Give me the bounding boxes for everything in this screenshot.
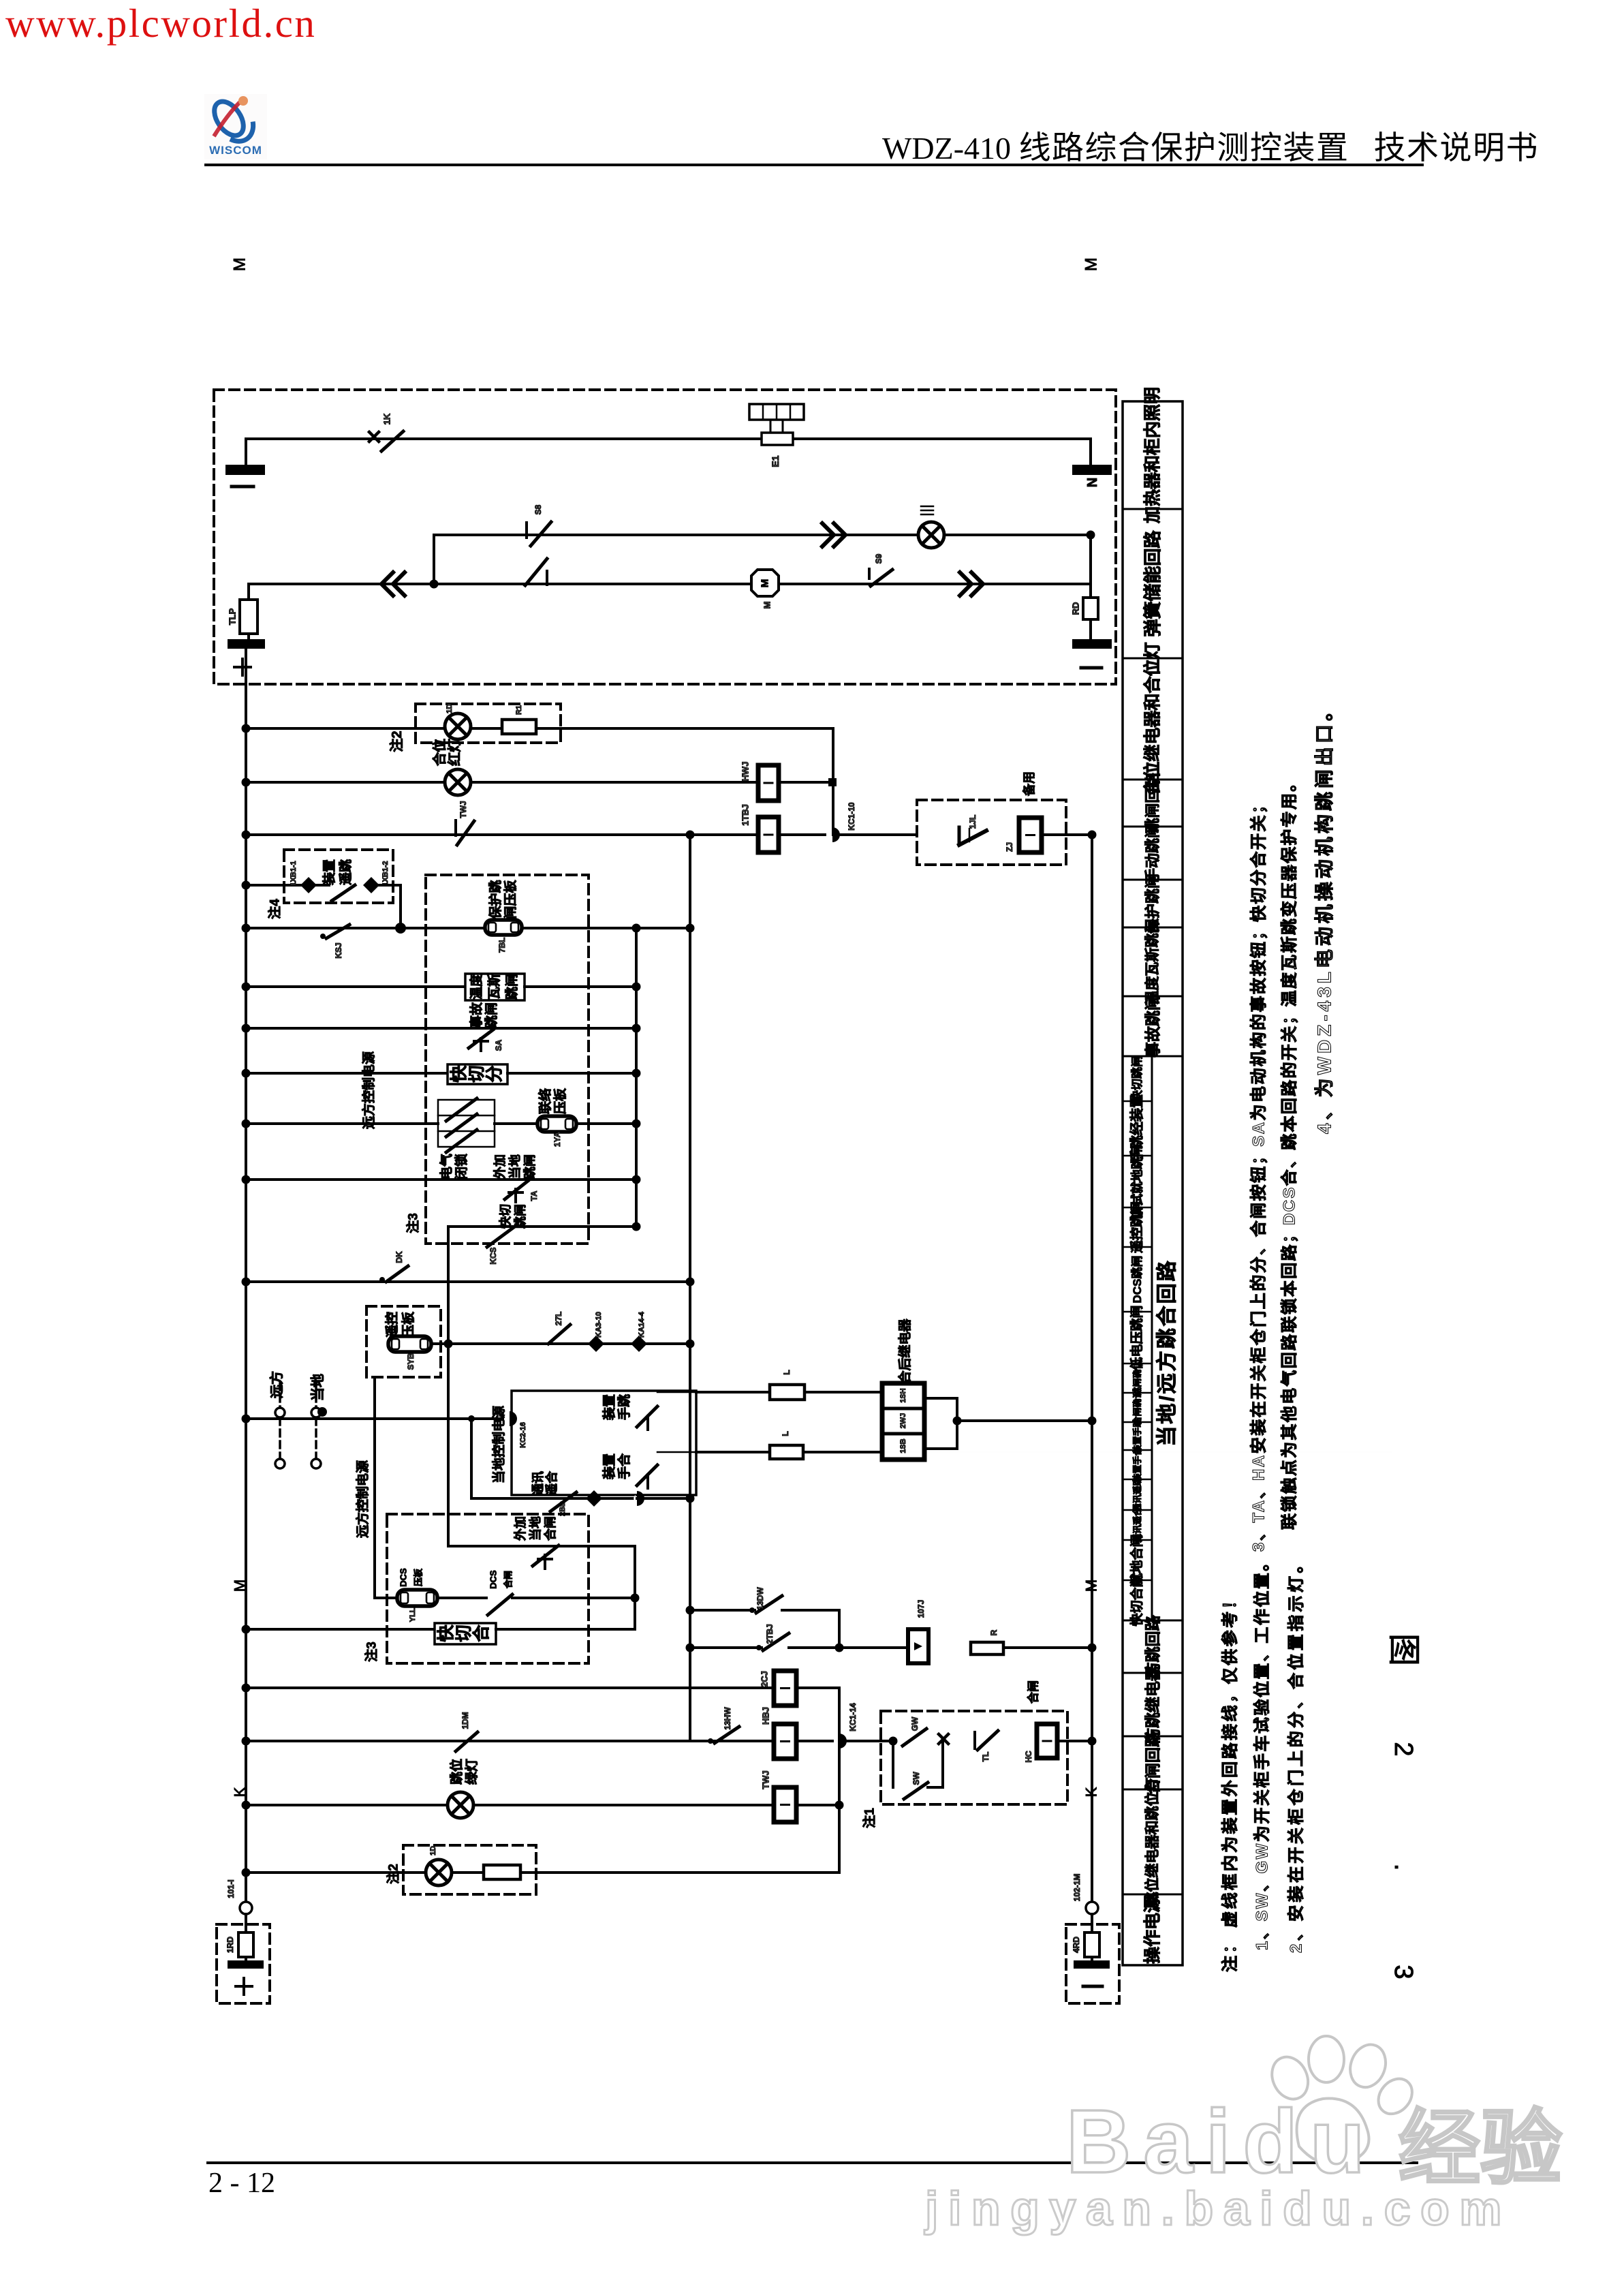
svg-text:TL: TL <box>981 1752 990 1762</box>
svg-text:KSJ: KSJ <box>334 942 343 958</box>
svg-text:KA14-4: KA14-4 <box>638 1311 646 1338</box>
svg-text:YLL: YLL <box>409 1607 417 1622</box>
svg-text:绿灯: 绿灯 <box>464 1759 480 1785</box>
svg-text:手跳: 手跳 <box>616 1394 632 1420</box>
svg-text:GW: GW <box>910 1716 920 1731</box>
svg-text:红灯: 红灯 <box>446 739 463 766</box>
svg-text:快: 快 <box>437 1624 456 1642</box>
svg-text:R: R <box>989 1629 999 1635</box>
svg-text:13HW: 13HW <box>723 1707 732 1730</box>
svg-text:1TBJ: 1TBJ <box>740 804 751 826</box>
svg-text:跳位: 跳位 <box>449 1759 465 1785</box>
svg-text:装置: 装置 <box>602 1394 617 1421</box>
svg-text:HC: HC <box>1024 1751 1033 1763</box>
svg-text:DCS跳闸: DCS跳闸 <box>1130 1256 1144 1304</box>
svg-text:2、安装在开关柜仓门上的分、合位置指示灯。: 2、安装在开关柜仓门上的分、合位置指示灯。 <box>1287 1554 1306 1953</box>
svg-text:压板: 压板 <box>552 1088 568 1114</box>
svg-text:合闸: 合闸 <box>503 1571 514 1588</box>
svg-text:跳闸: 跳闸 <box>522 1154 537 1179</box>
svg-text:远方控制电源: 远方控制电源 <box>361 1051 377 1129</box>
svg-text:KC1-10: KC1-10 <box>847 802 856 831</box>
svg-text:联锁触点为其他电气回路联锁本回路；DCS合、跳本回路的开关；: 联锁触点为其他电气回路联锁本回路；DCS合、跳本回路的开关；温度瓦斯跳变压器保护… <box>1280 773 1299 1530</box>
svg-text:1、SW、GW为开关柜手车试验位置、工作位置。: 1、SW、GW为开关柜手车试验位置、工作位置。 <box>1253 1553 1272 1950</box>
svg-text:合: 合 <box>471 1624 491 1642</box>
svg-text:注3: 注3 <box>405 1213 421 1233</box>
svg-text:S8: S8 <box>533 504 543 514</box>
svg-text:当地: 当地 <box>528 1516 542 1541</box>
svg-text:压板: 压板 <box>413 1568 424 1586</box>
svg-text:1K: 1K <box>382 413 392 425</box>
svg-text:2: 2 <box>1389 1742 1418 1756</box>
svg-text:当地控制电源: 当地控制电源 <box>491 1406 507 1483</box>
svg-text:13DW: 13DW <box>755 1587 765 1610</box>
svg-text:3、TA、HA安装在开关柜仓门上的分、合闸按钮；SA为电动机: 3、TA、HA安装在开关柜仓门上的分、合闸按钮；SA为电动机构的事故按钮；快切分… <box>1249 795 1268 1552</box>
svg-text:1DM: 1DM <box>460 1712 470 1729</box>
svg-text:注4: 注4 <box>267 899 283 919</box>
svg-text:外加: 外加 <box>493 1154 507 1179</box>
svg-text:加热器和柜内照明: 加热器和柜内照明 <box>1143 387 1162 524</box>
svg-text:1XB1-2: 1XB1-2 <box>381 861 390 886</box>
svg-text:K: K <box>232 1787 249 1797</box>
svg-text:TWJ: TWJ <box>458 801 468 818</box>
svg-text:联络: 联络 <box>537 1088 553 1114</box>
svg-text:7BL: 7BL <box>497 938 507 953</box>
svg-text:装置: 装置 <box>602 1453 617 1480</box>
svg-text:E1: E1 <box>770 455 781 467</box>
svg-text:注3: 注3 <box>364 1642 379 1662</box>
svg-text:M: M <box>762 602 772 609</box>
svg-text:遥控: 遥控 <box>384 1312 400 1338</box>
svg-text:跳闸: 跳闸 <box>513 1204 527 1229</box>
svg-text:合后继电器: 合后继电器 <box>897 1319 913 1384</box>
svg-text:DCS: DCS <box>399 1568 409 1587</box>
svg-text:M: M <box>1082 258 1101 271</box>
svg-text:合闸: 合闸 <box>543 1516 557 1541</box>
svg-text:M: M <box>1083 1580 1100 1592</box>
svg-text:快: 快 <box>450 1065 469 1083</box>
svg-text:2CJ: 2CJ <box>760 1671 770 1687</box>
svg-text:N: N <box>1085 478 1100 487</box>
svg-text:2WJ: 2WJ <box>899 1413 907 1429</box>
svg-text:Baidu: Baidu <box>1066 2091 1377 2191</box>
svg-text:107J: 107J <box>916 1600 926 1618</box>
svg-text:遥控跳闸: 遥控跳闸 <box>1129 1201 1144 1253</box>
svg-text:M: M <box>231 258 249 271</box>
svg-text:KA3-10: KA3-10 <box>595 1312 603 1338</box>
svg-text:外加: 外加 <box>513 1516 527 1541</box>
svg-text:1D: 1D <box>429 1846 437 1855</box>
svg-text:图: 图 <box>1386 1633 1422 1666</box>
svg-text:跳闸: 跳闸 <box>484 1002 499 1028</box>
svg-text:2TBJ: 2TBJ <box>765 1624 775 1644</box>
svg-text:远方: 远方 <box>268 1371 285 1398</box>
svg-text:TA: TA <box>529 1190 539 1201</box>
svg-text:装置: 装置 <box>322 859 337 886</box>
svg-text:1D: 1D <box>446 704 454 713</box>
svg-text:弹簧储能回路: 弹簧储能回路 <box>1142 530 1163 637</box>
svg-text:SW: SW <box>911 1772 921 1785</box>
svg-text:SA: SA <box>494 1039 503 1051</box>
svg-text:RD: RD <box>1071 602 1081 615</box>
svg-text:TLP: TLP <box>228 608 238 625</box>
svg-text:1XB1-1: 1XB1-1 <box>290 861 298 886</box>
svg-text:M: M <box>232 1580 249 1592</box>
svg-text:4RD: 4RD <box>1072 1937 1081 1953</box>
svg-text:1JL: 1JL <box>968 815 978 829</box>
svg-text:温度: 温度 <box>469 973 484 1000</box>
svg-text:注2: 注2 <box>388 730 405 752</box>
svg-text:电气: 电气 <box>439 1154 454 1180</box>
svg-text:TWJ: TWJ <box>761 1770 771 1789</box>
svg-text:4、为WDZ-43L电动机操动机构跳闸出口。: 4、为WDZ-43L电动机操动机构跳闸出口。 <box>1314 698 1335 1134</box>
svg-text:遥合: 遥合 <box>544 1470 559 1496</box>
svg-text:合位: 合位 <box>431 739 448 766</box>
svg-text:闭锁: 闭锁 <box>454 1154 469 1180</box>
svg-text:切: 切 <box>467 1065 486 1082</box>
svg-text:1SB: 1SB <box>899 1438 907 1453</box>
svg-text:当地: 当地 <box>507 1154 522 1179</box>
svg-text:远方控制电源: 远方控制电源 <box>355 1460 371 1538</box>
svg-text:DCS: DCS <box>488 1570 499 1589</box>
svg-text:HBJ: HBJ <box>761 1707 771 1725</box>
svg-text:事故: 事故 <box>469 1002 484 1028</box>
svg-text:102-1M: 102-1M <box>1072 1874 1082 1902</box>
svg-text:保护跳: 保护跳 <box>488 880 503 919</box>
svg-text:闸压板: 闸压板 <box>503 880 518 919</box>
svg-text:操作电源: 操作电源 <box>1143 1896 1162 1964</box>
svg-text:KC1-14: KC1-14 <box>848 1703 858 1731</box>
svg-text:压板: 压板 <box>401 1311 416 1338</box>
svg-text:27L: 27L <box>554 1312 563 1326</box>
svg-text:KCS: KCS <box>488 1247 498 1264</box>
svg-text:jingyan.baidu.com: jingyan.baidu.com <box>924 2182 1512 2235</box>
svg-text:跳闸: 跳闸 <box>504 974 520 1000</box>
svg-text:1YA: 1YA <box>552 1132 562 1147</box>
svg-text:S9: S9 <box>874 553 884 564</box>
svg-text:101-I: 101-I <box>226 1879 236 1898</box>
svg-text:当地: 当地 <box>310 1374 326 1401</box>
svg-text:温度瓦斯跳闸: 温度瓦斯跳闸 <box>1144 919 1161 1005</box>
svg-text:L: L <box>782 1370 792 1374</box>
svg-text:快切合闸: 快切合闸 <box>1129 1574 1144 1626</box>
svg-text:1SH: 1SH <box>899 1388 907 1402</box>
svg-text:K: K <box>1083 1787 1100 1797</box>
svg-text:遥跳: 遥跳 <box>338 859 354 885</box>
svg-text:M: M <box>760 579 771 588</box>
svg-text:通讯遥跳: 通讯遥跳 <box>1132 1477 1142 1512</box>
svg-text:手合: 手合 <box>616 1453 632 1479</box>
svg-text:3: 3 <box>1389 1965 1418 1979</box>
svg-text:当地/远方跳合回路: 当地/远方跳合回路 <box>1155 1259 1178 1446</box>
svg-text:L: L <box>781 1431 790 1436</box>
svg-text:注1: 注1 <box>862 1808 877 1828</box>
svg-text:跳位继电器和跳位灯: 跳位继电器和跳位灯 <box>1144 1778 1161 1907</box>
svg-text:HWJ: HWJ <box>740 762 751 782</box>
svg-text:注： 虚线框内为装置外回路接线，仅供参考！: 注： 虚线框内为装置外回路接线，仅供参考！ <box>1221 1590 1240 1972</box>
svg-text:事故跳闸: 事故跳闸 <box>1144 995 1161 1058</box>
svg-text:注2: 注2 <box>386 1864 401 1884</box>
svg-text:1RD: 1RD <box>225 1937 235 1953</box>
svg-text:瓦斯: 瓦斯 <box>486 974 502 1000</box>
svg-text:DK: DK <box>394 1251 404 1263</box>
svg-text:KC2-16: KC2-16 <box>519 1422 527 1448</box>
svg-text:合位继电器和合位灯: 合位继电器和合位灯 <box>1142 642 1162 795</box>
svg-text:.: . <box>1389 1864 1418 1871</box>
svg-text:通讯: 通讯 <box>531 1471 545 1496</box>
svg-text:R1: R1 <box>515 705 523 715</box>
svg-text:经验: 经验 <box>1399 2103 1562 2194</box>
svg-text:SYB: SYB <box>406 1353 416 1370</box>
svg-text:备用: 备用 <box>1022 771 1036 797</box>
svg-text:合闸: 合闸 <box>1027 1680 1040 1704</box>
svg-text:ZJ: ZJ <box>1005 842 1014 852</box>
svg-text:切: 切 <box>454 1624 473 1642</box>
svg-text:分: 分 <box>485 1065 504 1082</box>
svg-text:快切: 快切 <box>498 1204 512 1229</box>
